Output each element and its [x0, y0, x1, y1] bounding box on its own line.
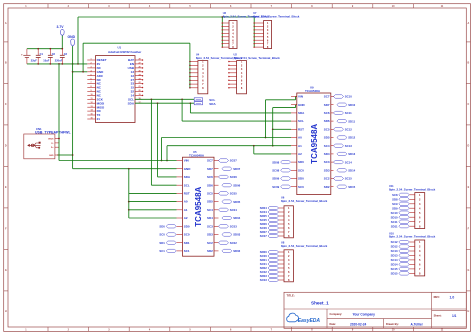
terminal block U6 pins and flags SD04..SC07 — [279, 207, 285, 209]
battery B1 plates — [23, 54, 30, 56]
svg-text:20: 20 — [139, 90, 141, 92]
terminal block U11 pins and flags SC8..SD11 — [409, 194, 415, 196]
wire cap bank bottom rail 3V net — [27, 63, 87, 65]
svg-text:SD0: SD0 — [298, 160, 304, 164]
capacitor C1 22uF — [37, 49, 39, 56]
svg-text:SD11: SD11 — [348, 119, 355, 123]
svg-text:SD12: SD12 — [348, 136, 355, 140]
svg-text:26: 26 — [139, 67, 141, 69]
svg-text:SC13: SC13 — [391, 249, 398, 253]
junction top rail at C1 — [37, 48, 39, 50]
wire U9 GND — [273, 107, 296, 109]
svg-text:5: 5 — [91, 74, 92, 76]
svg-text:H: H — [468, 310, 470, 313]
junction RST row at GND vertical — [272, 128, 274, 130]
svg-text:8pin_2.54_Screw_Terminal_Block: 8pin_2.54_Screw_Terminal_Block — [234, 56, 281, 60]
junction SCL wire at U9 drop — [181, 98, 183, 100]
wire cap bank top rail — [27, 48, 62, 50]
junction A1 wire at GND vertical — [272, 145, 274, 147]
module U1 left pins RESET 3V NC GND ADC NC SCK MOSI MISO RX TX 21 — [87, 59, 95, 61]
svg-text:SCL: SCL — [184, 183, 190, 187]
svg-text:SC4: SC4 — [324, 144, 330, 148]
svg-text:SC0: SC0 — [298, 168, 304, 172]
junction bottom rail at VBUS drop — [58, 63, 60, 65]
svg-text:6: 6 — [91, 78, 92, 80]
svg-text:SC4: SC4 — [207, 208, 213, 212]
wire A1 left vertical to U5 VIN wire — [166, 146, 168, 161]
svg-text:23: 23 — [139, 78, 141, 80]
wire U1 SDA to net port — [135, 102, 194, 104]
svg-text:C2: C2 — [52, 52, 56, 56]
svg-text:SD3: SD3 — [207, 233, 213, 237]
svg-text:SC7: SC7 — [324, 95, 330, 99]
svg-text:SC12: SC12 — [345, 128, 352, 132]
ic U9 left pins VIN GND SDA SCL RST A0 A1 A2 — [291, 96, 297, 98]
svg-text:28: 28 — [139, 59, 141, 61]
terminal block U8 pins and flags SD00..SC03 — [279, 251, 285, 253]
svg-text:C3: C3 — [64, 52, 68, 56]
wire A0 left vertical — [161, 138, 163, 161]
svg-text:VIN: VIN — [184, 159, 189, 163]
svg-text:SC7: SC7 — [207, 159, 213, 163]
svg-text:SC0: SC0 — [184, 233, 190, 237]
module U1 right pins BAT EN USB 13 12 27 33 15 32 14 SCL SDA — [135, 59, 143, 61]
svg-text:Sheet_1: Sheet_1 — [311, 301, 329, 306]
svg-text:SC10: SC10 — [345, 95, 352, 99]
svg-text:Your Company: Your Company — [353, 312, 376, 316]
connector CN1 pins VBUS D- D+ GND — [55, 138, 59, 140]
svg-text:21: 21 — [139, 86, 141, 88]
svg-text:VIN: VIN — [298, 95, 303, 99]
svg-text:1/1: 1/1 — [452, 314, 457, 318]
svg-text:REV:: REV: — [434, 295, 440, 299]
svg-text:G: G — [467, 269, 469, 272]
wire U3 pin bus vertical — [221, 17, 223, 47]
svg-text:SC06: SC06 — [230, 175, 237, 179]
junction bottom rail at GND flag drop — [72, 63, 74, 65]
svg-text:SD4: SD4 — [324, 152, 330, 156]
svg-text:SD12: SD12 — [391, 245, 398, 249]
svg-text:SD15: SD15 — [391, 272, 398, 276]
svg-text:SD0: SD0 — [184, 224, 190, 228]
power flag 3.7V symbol — [60, 30, 64, 36]
svg-text:SDA: SDA — [184, 175, 191, 179]
sheet frame top tick marks — [47, 4, 49, 8]
junction bottom rail at C3 — [61, 63, 63, 65]
svg-text:SDA: SDA — [209, 102, 216, 106]
sheet frame left tick marks — [4, 41, 8, 43]
svg-text:SC3: SC3 — [324, 160, 330, 164]
svg-text:3: 3 — [91, 67, 92, 69]
junction U5 VIN wire at A0 vertical — [161, 160, 163, 162]
svg-text:SD07: SD07 — [233, 167, 240, 171]
wire VBUS to U5 VIN pin — [59, 160, 177, 162]
svg-text:SC15: SC15 — [345, 177, 352, 181]
junction bottom rail at C2 — [49, 63, 51, 65]
terminal block U7 body and numbers — [264, 21, 272, 49]
ic U5 left pins VIN GND SDA SCL RST A0 A1 A2 — [177, 160, 183, 162]
svg-text:H: H — [5, 310, 7, 313]
svg-text:GND: GND — [49, 155, 54, 157]
ic U9 left channel flags SD08 SC08 SD09 SC09 — [291, 161, 297, 163]
svg-text:SD8: SD8 — [392, 198, 398, 202]
svg-text:GND: GND — [184, 167, 192, 171]
svg-text:TCA9548A: TCA9548A — [310, 124, 319, 164]
svg-text:220nF: 220nF — [55, 58, 63, 62]
net port SDA symbol — [194, 102, 202, 105]
terminal block U4 pins — [190, 61, 198, 63]
svg-text:SC11: SC11 — [391, 220, 398, 224]
svg-text:C: C — [5, 103, 7, 106]
svg-text:SC13: SC13 — [345, 144, 352, 148]
svg-text:SC8: SC8 — [392, 193, 398, 197]
svg-text:USB_TYPEAPTHFWL: USB_TYPEAPTHFWL — [35, 131, 71, 135]
svg-text:SD02: SD02 — [233, 249, 240, 253]
svg-text:A: A — [468, 22, 470, 25]
svg-text:SD09: SD09 — [272, 177, 279, 181]
svg-text:22: 22 — [139, 82, 141, 84]
svg-text:SC15: SC15 — [391, 267, 398, 271]
wire GND flag vertical down to U5 GND row — [72, 46, 74, 169]
svg-text:16: 16 — [91, 118, 93, 120]
svg-text:G: G — [5, 269, 7, 272]
svg-text:SDA: SDA — [298, 111, 305, 115]
svg-text:SC1: SC1 — [184, 249, 190, 253]
svg-text:SD1: SD1 — [184, 241, 190, 245]
wire top bus — [78, 16, 254, 18]
svg-text:SC03: SC03 — [230, 225, 237, 229]
svg-text:B: B — [5, 62, 7, 65]
wire 3.7V flag to cap rail — [61, 36, 63, 49]
svg-text:RST: RST — [184, 192, 190, 196]
junction CN1 VBUS pin — [58, 138, 60, 140]
svg-text:1: 1 — [91, 59, 92, 61]
svg-text:SC03: SC03 — [260, 278, 267, 282]
wire VBUS vertical rail to U5 VIN row — [58, 64, 60, 161]
junction U4 feed at U1 GND wire — [82, 71, 84, 73]
svg-text:9: 9 — [91, 90, 92, 92]
svg-text:SD6: SD6 — [207, 183, 213, 187]
svg-text:22uF: 22uF — [31, 58, 37, 62]
wire VIN vertical down to A0 wire — [265, 100, 267, 138]
svg-text:SC2: SC2 — [207, 241, 213, 245]
svg-text:SD04: SD04 — [233, 216, 240, 220]
svg-text:A0: A0 — [184, 200, 188, 204]
terminal block U3 body and numbers — [229, 21, 237, 49]
svg-text:Date:: Date: — [330, 322, 337, 326]
svg-text:VBUS: VBUS — [48, 138, 54, 140]
svg-text:SC10: SC10 — [391, 211, 398, 215]
wire address drop vertical — [128, 169, 130, 218]
wire U9 A0 long — [162, 137, 292, 139]
junction A0 wire at VIN vertical — [265, 137, 267, 139]
svg-text:U1: U1 — [118, 45, 122, 49]
svg-text:15: 15 — [91, 114, 93, 116]
connector CN1 body — [24, 134, 55, 159]
sheet frame bottom tick marks — [47, 327, 49, 331]
svg-text:SD7: SD7 — [324, 103, 330, 107]
svg-text:A2: A2 — [298, 152, 302, 156]
wire GND vertical down to A1 wire — [272, 108, 274, 146]
svg-text:13: 13 — [91, 106, 93, 108]
terminal block U7 pins — [254, 22, 263, 24]
logo EasyEDA — [287, 313, 299, 322]
svg-text:SC5: SC5 — [324, 127, 330, 131]
svg-text:10: 10 — [91, 94, 93, 96]
svg-text:27: 27 — [139, 63, 141, 65]
svg-text:1.0: 1.0 — [450, 296, 455, 300]
junction bottom rail at top bus drop — [77, 63, 79, 65]
svg-text:C1: C1 — [40, 52, 44, 56]
sheet frame right tick marks — [466, 41, 470, 43]
wire SCL over to U9 SCL pin — [181, 99, 183, 121]
svg-text:Drawn By:: Drawn By: — [386, 322, 399, 326]
svg-text:RST: RST — [298, 127, 304, 131]
wire CN1 GND pin to GND vertical — [57, 154, 73, 156]
title block grid — [284, 292, 466, 328]
svg-text:SD11: SD11 — [391, 224, 398, 228]
ic U5 TCA9548A body — [183, 157, 215, 256]
svg-text:SD05: SD05 — [233, 200, 240, 204]
junction SDA wire at U9 drop — [190, 102, 192, 104]
wire to U5 A2 pin — [129, 217, 177, 219]
junction top rail at C2 — [49, 48, 51, 50]
ic U9 right pins and channel flags SC10..SD15 — [331, 96, 334, 98]
svg-text:SD3: SD3 — [324, 168, 330, 172]
ic U9 TCA9548A body — [297, 93, 331, 195]
svg-text:A2: A2 — [184, 216, 188, 220]
svg-text:GND: GND — [68, 35, 76, 39]
svg-text:SCL: SCL — [298, 119, 304, 123]
svg-text:A1: A1 — [298, 144, 302, 148]
wire to U5 A1 pin — [129, 209, 177, 211]
junction SDA wire at U5 drop — [157, 102, 159, 104]
wire U4 feed left vertical to U1 GND row — [82, 43, 84, 72]
svg-text:8: 8 — [91, 86, 92, 88]
wire U4 pin bus vertical — [189, 43, 191, 88]
svg-text:SC07: SC07 — [260, 234, 267, 238]
ic U5 right pins and channel flags SC07..SD02 — [214, 160, 219, 162]
svg-text:SC5: SC5 — [207, 192, 213, 196]
junction U5 GND wire at address drop — [128, 168, 130, 170]
svg-text:EasyEDA: EasyEDA — [298, 318, 321, 324]
wire SCL down to U5 SCL pin — [150, 99, 152, 185]
svg-text:SD14: SD14 — [348, 169, 355, 173]
power flag GND symbol — [71, 39, 75, 46]
svg-text:SD15: SD15 — [348, 185, 355, 189]
terminal block U3 pins — [222, 22, 229, 24]
svg-text:SC08: SC08 — [272, 169, 279, 173]
terminal block U10 body and numbers — [415, 240, 425, 276]
terminal block U10 pins and flags SC12..SD15 — [409, 241, 415, 243]
net port SCL symbol — [194, 98, 202, 101]
svg-text:SC09: SC09 — [272, 185, 279, 189]
junction A1 at A2 drop — [253, 145, 255, 147]
terminal block U6 body and numbers — [284, 206, 293, 238]
svg-text:11: 11 — [91, 98, 93, 100]
terminal block U2 body and numbers — [237, 61, 247, 94]
svg-text:TCA9548A: TCA9548A — [194, 186, 203, 226]
svg-text:SC14: SC14 — [345, 160, 352, 164]
svg-text:D: D — [468, 145, 470, 148]
wire SDA over to U9 SDA pin — [189, 103, 191, 113]
junction top bus at U3 drop — [221, 16, 223, 18]
svg-text:SD0: SD0 — [298, 177, 304, 181]
svg-text:SC1: SC1 — [159, 249, 165, 253]
svg-text:SD13: SD13 — [391, 254, 398, 258]
wire U1 SCL to net port — [135, 98, 194, 100]
wire U7 pin bus vertical — [253, 17, 255, 47]
wire to U1 GND pin — [73, 71, 88, 73]
svg-text:8pin_2.54_Screw_Terminal_Block: 8pin_2.54_Screw_Terminal_Block — [389, 235, 436, 239]
junction top rail at C3 and 3.7V drop — [61, 48, 63, 50]
svg-text:SC0: SC0 — [159, 233, 165, 237]
svg-text:SD1: SD1 — [159, 241, 165, 245]
svg-text:SC07: SC07 — [230, 159, 237, 163]
svg-text:3.7V: 3.7V — [57, 25, 65, 29]
svg-text:+: + — [21, 52, 23, 56]
svg-text:21: 21 — [97, 117, 101, 121]
svg-text:GND: GND — [298, 103, 306, 107]
wire U9 VIN — [266, 99, 296, 101]
junction address vertical at A1 — [128, 209, 130, 211]
svg-text:SD03: SD03 — [233, 233, 240, 237]
svg-text:SC9: SC9 — [392, 202, 398, 206]
svg-text:SC05: SC05 — [230, 192, 237, 196]
terminal block U8 body and numbers — [284, 250, 293, 282]
svg-text:8pin_2.54_Screw_Terminal_Block: 8pin_2.54_Screw_Terminal_Block — [281, 244, 328, 248]
svg-text:C: C — [468, 103, 470, 106]
wire U9 RST — [273, 128, 291, 130]
svg-text:25: 25 — [139, 70, 141, 72]
svg-text:SD08: SD08 — [272, 160, 279, 164]
svg-text:SD10: SD10 — [391, 215, 398, 219]
svg-text:SDA: SDA — [128, 101, 135, 105]
svg-text:8pin_2.54_Screw_Terminal_Block: 8pin_2.54_Screw_Terminal_Block — [253, 14, 300, 18]
connector CN1 USB glyph — [27, 144, 30, 147]
svg-text:SD5: SD5 — [207, 200, 213, 204]
wire U9 A1 long — [167, 145, 291, 147]
svg-text:8pin_2.54_Screw_Terminal_Block: 8pin_2.54_Screw_Terminal_Block — [281, 199, 328, 203]
svg-text:SC11: SC11 — [345, 111, 352, 115]
svg-text:SC04: SC04 — [230, 208, 237, 212]
svg-text:SC2: SC2 — [324, 177, 330, 181]
junction GND vertical at CN1 GND row — [72, 154, 74, 156]
svg-text:SD13: SD13 — [348, 152, 355, 156]
svg-text:A.Tellier: A.Tellier — [411, 322, 424, 326]
svg-text:SC3: SC3 — [207, 224, 213, 228]
svg-text:SD6: SD6 — [324, 119, 330, 123]
svg-text:D: D — [5, 145, 7, 148]
svg-text:Company:: Company: — [330, 312, 343, 316]
svg-text:SD9: SD9 — [392, 206, 398, 210]
junction address vertical at A0 — [128, 201, 130, 203]
ic U5 left channel flags SD0 SC0 SD1 SC1 — [177, 225, 183, 227]
terminal block U11 body and numbers — [415, 193, 425, 229]
terminal block U2 pins — [229, 61, 237, 63]
svg-text:2020-02-24: 2020-02-24 — [350, 322, 367, 326]
svg-text:A0: A0 — [298, 136, 302, 140]
svg-text:SC12: SC12 — [391, 240, 398, 244]
svg-text:D-: D- — [51, 143, 53, 145]
svg-text:10uF: 10uF — [43, 58, 49, 62]
capacitor C3 220nF — [61, 49, 63, 56]
junction SCL wire at U5 drop — [151, 98, 153, 100]
svg-text:7: 7 — [91, 82, 92, 84]
svg-text:SD10: SD10 — [348, 103, 355, 107]
svg-text:TCA9548A: TCA9548A — [305, 89, 321, 93]
wire top bus down to bottom rail — [77, 17, 79, 64]
svg-text:SD06: SD06 — [233, 183, 240, 187]
svg-text:19: 19 — [139, 94, 141, 96]
svg-text:SC14: SC14 — [391, 258, 398, 262]
svg-text:SD2: SD2 — [324, 185, 330, 189]
svg-text:TITLE:: TITLE: — [287, 294, 295, 298]
svg-text:2: 2 — [91, 63, 92, 65]
wire SDA down to U5 SDA pin — [157, 103, 159, 177]
svg-text:SC6: SC6 — [207, 175, 213, 179]
terminal block U4 body and numbers — [198, 61, 208, 94]
svg-text:Sheet:: Sheet: — [434, 313, 442, 317]
svg-text:Adafruit ESP32 Feather: Adafruit ESP32 Feather — [108, 50, 142, 54]
svg-text:A: A — [5, 22, 7, 25]
wire to U5 A0 pin — [129, 201, 177, 203]
svg-text:SD7: SD7 — [207, 167, 213, 171]
svg-text:SC6: SC6 — [324, 111, 330, 115]
junction U5 VIN wire at A1 vertical — [166, 160, 168, 162]
svg-text:12: 12 — [91, 102, 93, 104]
wire U9 A2 — [253, 146, 255, 154]
capacitor C2 10uF — [49, 49, 51, 56]
svg-text:TCA9548A: TCA9548A — [189, 153, 205, 157]
wire GND vertical to U5 GND pin — [73, 168, 177, 170]
svg-text:8pin_2.54_Screw_Terminal_Block: 8pin_2.54_Screw_Terminal_Block — [389, 187, 436, 191]
junction bottom rail at C1 — [37, 63, 39, 65]
junction GND vertical at U1 GND row — [72, 71, 74, 73]
svg-text:SD5: SD5 — [324, 136, 330, 140]
svg-text:A1: A1 — [184, 208, 188, 212]
svg-text:SC02: SC02 — [230, 241, 237, 245]
svg-text:SD0: SD0 — [159, 225, 165, 229]
battery B1 leads — [26, 49, 28, 56]
wire U4 feed horizontal — [83, 42, 190, 44]
wire to U5 RST pin — [129, 192, 177, 194]
svg-text:SD14: SD14 — [391, 263, 398, 267]
svg-text:SD4: SD4 — [207, 216, 213, 220]
svg-text:SC0: SC0 — [298, 185, 304, 189]
svg-text:SD2: SD2 — [207, 249, 213, 253]
svg-text:B: B — [468, 62, 470, 65]
module U1 Adafruit ESP32 Feather body — [96, 56, 136, 123]
